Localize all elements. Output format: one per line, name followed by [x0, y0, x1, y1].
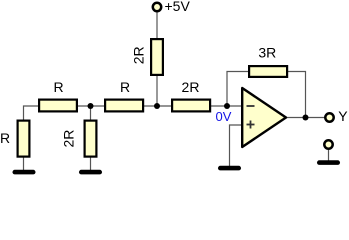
ground under op-amp non-inverting input	[218, 166, 241, 171]
wire 2R to op-amp inverting input through node C	[211, 105, 243, 107]
wire feedback from node C up and right to 3R	[227, 72, 249, 106]
svg-text:R: R	[53, 79, 63, 95]
resistor R vertical left	[18, 121, 30, 157]
ground under bottom-right terminal	[317, 160, 340, 165]
resistor 2R vertical middle	[85, 121, 97, 157]
resistor 2R vertical top	[151, 39, 163, 75]
svg-text:R: R	[120, 79, 130, 95]
node B junction	[154, 103, 160, 109]
resistor R2 horizontal	[105, 100, 143, 112]
wire bottom-right terminal to ground	[328, 148, 330, 161]
svg-text:+5V: +5V	[165, 0, 191, 14]
op-amp U1	[242, 88, 286, 147]
wire left corner to resistor R1	[24, 106, 40, 121]
wire left R to ground	[23, 157, 25, 170]
wire from 3R right side down to output node	[288, 72, 306, 118]
node C junction	[224, 103, 230, 109]
svg-text:3R: 3R	[258, 45, 276, 61]
terminal +5V	[153, 3, 161, 11]
wire op-amp output to terminal Y	[285, 117, 325, 119]
terminal reference bottom-right	[324, 140, 332, 148]
svg-text:R: R	[0, 130, 10, 146]
resistor 3R feedback	[249, 66, 287, 77]
svg-text:Y: Y	[338, 108, 348, 124]
wire from top 2R resistor down to node B	[156, 75, 158, 106]
svg-text:0V: 0V	[216, 109, 232, 124]
ground under middle 2R	[79, 170, 102, 175]
svg-text:2R: 2R	[182, 79, 200, 95]
node D output junction	[303, 115, 309, 121]
terminal Y	[325, 113, 333, 121]
resistor 2R horizontal	[172, 100, 210, 112]
node A junction	[88, 103, 94, 109]
wire vertical 2R to ground	[90, 157, 92, 170]
wire R2 to horizontal 2R through node B	[144, 105, 172, 107]
wire op-amp non-inverting input to ground	[230, 125, 244, 166]
wire R1 to R2 through node A	[77, 105, 106, 107]
svg-text:2R: 2R	[61, 130, 77, 148]
ground under left R	[13, 170, 36, 175]
wire node A down to vertical 2R	[90, 106, 92, 121]
resistor R1 horizontal	[39, 100, 77, 112]
wire from +5V terminal down to top 2R resistor	[156, 11, 158, 39]
svg-text:2R: 2R	[131, 46, 147, 64]
